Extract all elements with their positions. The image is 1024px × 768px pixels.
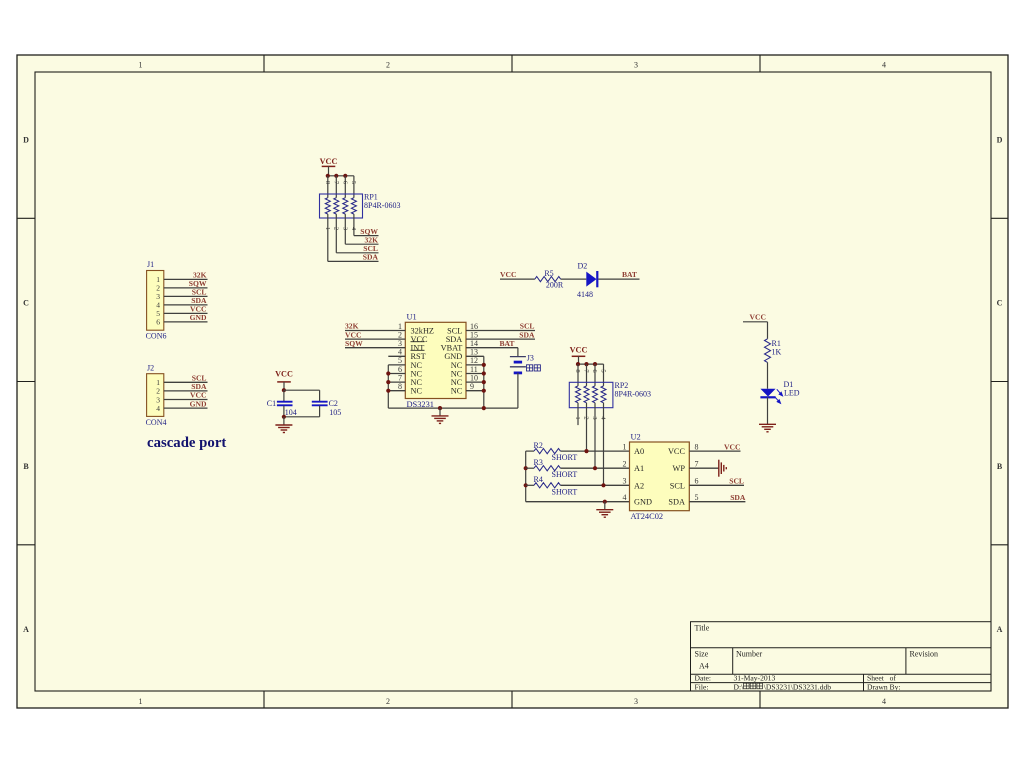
svg-text:8P4R-0603: 8P4R-0603: [615, 390, 651, 399]
svg-text:J3: J3: [527, 353, 534, 362]
junction dot rail R4: [524, 483, 528, 487]
svg-text:A: A: [23, 625, 29, 634]
battery J3: [517, 348, 519, 357]
ground C1: [283, 417, 285, 425]
resistor R5: [535, 277, 561, 282]
wire D1 to ground: [767, 397, 769, 424]
svg-text:VCC: VCC: [275, 369, 293, 378]
svg-text:3: 3: [634, 697, 638, 706]
RP2 resistors: [576, 386, 581, 403]
ground U1: [439, 408, 441, 416]
svg-text:VCC: VCC: [668, 447, 686, 456]
svg-text:Title: Title: [695, 624, 710, 633]
svg-text:Size: Size: [695, 650, 709, 659]
LED D1: [760, 389, 775, 397]
svg-text:AT24C02: AT24C02: [631, 512, 664, 521]
wire U2 WP to ground: [689, 467, 718, 469]
svg-text:SHORT: SHORT: [552, 487, 578, 496]
J1 pin 5 wire: [164, 312, 208, 314]
wire U1 SDA out: [466, 338, 535, 340]
svg-text:A4: A4: [699, 662, 709, 671]
wire NC vertical right: [483, 356, 485, 408]
svg-text:D: D: [23, 135, 29, 144]
U1 INT overline: [411, 341, 425, 343]
svg-text:1: 1: [139, 61, 143, 70]
wire R1 to D1: [767, 362, 769, 388]
RP1 resistors: [325, 198, 330, 214]
ground U2: [604, 502, 606, 510]
svg-text:6: 6: [695, 477, 699, 486]
wire C1 top to C2: [284, 389, 320, 391]
junction dot R3: [593, 466, 597, 470]
J3 value battery: [527, 365, 533, 371]
svg-text:2: 2: [623, 460, 627, 469]
svg-text:SHORT: SHORT: [552, 470, 578, 479]
svg-text:B: B: [997, 462, 1003, 471]
resistor R3: [526, 467, 534, 469]
svg-text:3: 3: [634, 61, 638, 70]
wire VCC rail RP2: [578, 363, 604, 365]
resistor R4: [526, 484, 534, 486]
junction dot R2: [584, 449, 588, 453]
wire U2 SDA out: [689, 501, 745, 503]
svg-text:C1: C1: [267, 399, 276, 408]
wire net 32K to U1: [345, 330, 405, 332]
svg-text:4: 4: [156, 404, 160, 413]
svg-text:5: 5: [695, 493, 699, 502]
svg-text:D: D: [997, 135, 1003, 144]
J1 pin 1 wire: [164, 278, 208, 280]
svg-text:8: 8: [324, 181, 331, 184]
zone dividers top: [263, 55, 265, 72]
svg-text:GND: GND: [634, 498, 652, 507]
junction dot rail-gnd: [438, 406, 442, 410]
svg-text:GND: GND: [190, 313, 207, 322]
svg-text:BAT: BAT: [622, 270, 637, 279]
svg-text:9: 9: [470, 382, 474, 391]
J2 pin 2 wire: [164, 390, 208, 392]
svg-text:C2: C2: [329, 399, 338, 408]
svg-text:3: 3: [623, 477, 627, 486]
svg-text:SDA: SDA: [730, 493, 746, 502]
svg-text:31-May-2013: 31-May-2013: [734, 673, 776, 682]
op-amp U1 body: [405, 322, 466, 398]
svg-text:2: 2: [386, 61, 390, 70]
svg-text:104: 104: [285, 408, 297, 417]
wire U2 SCL out: [689, 484, 744, 486]
wire D2 to BAT: [598, 278, 639, 280]
svg-text:C: C: [23, 299, 29, 308]
J2 pin 3 wire: [164, 399, 208, 401]
resistor R2: [526, 450, 534, 452]
connector J2: [147, 374, 164, 417]
U1 pin 4 stub: [388, 355, 405, 357]
svg-text:Number: Number: [736, 650, 763, 659]
svg-text:8: 8: [398, 382, 402, 391]
svg-text:A1: A1: [634, 464, 644, 473]
svg-text:R2: R2: [534, 441, 543, 450]
svg-text:J2: J2: [147, 364, 154, 373]
wire RP1 to net 32K: [344, 231, 346, 244]
svg-text:Drawn By:: Drawn By:: [867, 682, 901, 691]
svg-text:Revision: Revision: [910, 650, 938, 659]
wire VCC to R5: [500, 278, 535, 280]
svg-text:SDA: SDA: [363, 253, 379, 262]
junction dots RP2 top: [576, 362, 580, 366]
svg-text:GND: GND: [190, 399, 207, 408]
svg-text:cascade port: cascade port: [147, 435, 226, 451]
wire VCC rail RP1: [328, 175, 354, 177]
svg-text:2: 2: [332, 227, 339, 230]
wire U1 bottom ground rail: [388, 407, 518, 409]
svg-text:8P4R-0603: 8P4R-0603: [364, 201, 400, 210]
svg-text:C: C: [997, 299, 1003, 308]
RP2 pin1 stub: [577, 403, 579, 425]
svg-text:SQW: SQW: [345, 339, 363, 348]
zone dividers bottom: [263, 691, 265, 708]
title block: [691, 622, 992, 691]
svg-text:VCC: VCC: [500, 270, 516, 279]
wire net VCC to U1: [345, 338, 405, 340]
J2 pin 4 wire: [164, 407, 208, 409]
junction dot C1 bottom: [282, 415, 286, 419]
svg-text:SCL: SCL: [670, 481, 685, 490]
wire RP2 pin4 to A2: [603, 403, 605, 486]
inner border: [35, 72, 991, 691]
RP1 top pin wires: [327, 176, 329, 198]
svg-text:8: 8: [574, 369, 581, 372]
J1 pin 4 wire: [164, 304, 208, 306]
J1 pin 2 wire: [164, 287, 208, 289]
junction dot rail-right: [482, 406, 486, 410]
wire net SQW to U1: [345, 347, 405, 349]
svg-text:4: 4: [623, 493, 627, 502]
svg-text:U2: U2: [631, 432, 641, 441]
svg-text:1: 1: [324, 227, 331, 230]
junction dot gnd rail: [603, 500, 607, 504]
wire left rail R2R3R4: [525, 451, 527, 502]
svg-text:A0: A0: [634, 447, 644, 456]
svg-text:Date:: Date:: [695, 673, 711, 682]
svg-text:File:: File:: [695, 682, 709, 691]
junction dot rail R3: [524, 466, 528, 470]
wire U2 VCC out: [689, 450, 740, 452]
svg-text:U1: U1: [407, 313, 417, 322]
wire RP2 pin2 to A0: [586, 403, 588, 451]
junction dots left NC: [386, 371, 390, 375]
svg-text:1: 1: [139, 697, 143, 706]
svg-text:8: 8: [695, 442, 699, 451]
svg-text:CON4: CON4: [146, 418, 167, 427]
svg-text:1: 1: [623, 442, 627, 451]
svg-text:VCC: VCC: [570, 345, 588, 354]
svg-text:SCL: SCL: [729, 477, 744, 486]
svg-text:4148: 4148: [577, 290, 593, 299]
IC U2 body: [630, 442, 690, 511]
wire U1 SCL out: [466, 330, 535, 332]
svg-text:R3: R3: [534, 458, 543, 467]
U1 pins 12-9 NC wires: [466, 364, 484, 366]
zone dividers right: [991, 217, 1008, 219]
wire RP1 to net SCL: [335, 231, 337, 253]
junction dots right NC: [482, 363, 486, 367]
resistor pack RP2 box: [569, 382, 613, 407]
U1 pin13 GND wire: [466, 355, 484, 357]
J1 pin 3 wire: [164, 295, 208, 297]
wire NC vertical left: [387, 365, 389, 408]
svg-text:SDA: SDA: [668, 498, 685, 507]
svg-text:105: 105: [329, 408, 341, 417]
J1 pin 6 wire: [164, 321, 208, 323]
wire R4 to U2: [560, 484, 629, 486]
D1 arrows: [775, 389, 783, 403]
capacitor C2: [319, 390, 321, 401]
svg-text:4: 4: [882, 61, 886, 70]
junction dots RP1 top: [326, 174, 330, 178]
svg-text:3: 3: [341, 227, 348, 230]
wire R5 to D2: [561, 278, 587, 280]
wire U1 VBAT to battery: [466, 347, 518, 349]
svg-text:D2: D2: [578, 262, 588, 271]
RP2 top pin wires: [577, 364, 579, 386]
J2 pin 1 wire: [164, 381, 208, 383]
svg-text:WP: WP: [673, 464, 686, 473]
ground D1: [759, 423, 776, 425]
svg-text:5: 5: [350, 181, 357, 184]
svg-text:VCC: VCC: [750, 312, 766, 321]
wire VCC to R1: [743, 321, 768, 323]
wire C2 bottom to C1: [284, 416, 320, 418]
svg-text:Sheet of: Sheet of: [867, 673, 896, 682]
resistor pack RP1 box: [320, 194, 363, 218]
diode D2: [586, 272, 596, 287]
junction dot VCC-C1: [282, 388, 286, 392]
svg-text:B: B: [23, 462, 29, 471]
svg-text:VCC: VCC: [724, 442, 740, 451]
svg-text:BAT: BAT: [499, 339, 514, 348]
capacitor C1: [283, 390, 285, 401]
svg-text:1K: 1K: [772, 348, 782, 357]
svg-text:VCC: VCC: [320, 157, 338, 166]
svg-text:NC: NC: [411, 387, 423, 396]
svg-text:NC: NC: [451, 387, 463, 396]
svg-text:2: 2: [386, 697, 390, 706]
svg-text:200R: 200R: [546, 281, 564, 290]
svg-text:\DS3231\DS3231.ddb: \DS3231\DS3231.ddb: [764, 682, 832, 691]
junction dot R4: [601, 483, 605, 487]
svg-text:7: 7: [695, 460, 699, 469]
connector J1: [147, 271, 164, 331]
svg-text:SDA: SDA: [519, 330, 535, 339]
svg-text:D:\: D:\: [734, 682, 745, 691]
wire R2 to U2: [560, 450, 629, 452]
wire RP1 to net SDA: [327, 231, 329, 261]
svg-text:6: 6: [156, 318, 160, 327]
wire RP2 pin3 to A1: [594, 403, 596, 468]
svg-text:R5: R5: [544, 269, 553, 278]
U1 RST overline: [411, 349, 425, 351]
svg-text:J1: J1: [147, 260, 154, 269]
svg-text:4: 4: [882, 697, 886, 706]
wire GND rail U2: [526, 501, 630, 503]
svg-text:SHORT: SHORT: [552, 453, 578, 462]
wire R3 to U2: [560, 467, 629, 469]
resistor R1: [765, 339, 771, 363]
zone dividers left: [17, 217, 35, 219]
svg-text:A: A: [997, 625, 1003, 634]
wire RP1 to net SQW: [353, 231, 355, 236]
ground WP (rotated): [718, 460, 720, 477]
RP1 bottom pin wires: [327, 214, 329, 231]
svg-text:5: 5: [600, 369, 607, 372]
svg-text:CON6: CON6: [146, 332, 167, 341]
U1 pins 5-8 NC wires: [388, 364, 405, 366]
svg-text:LED: LED: [784, 389, 800, 398]
svg-text:A2: A2: [634, 481, 644, 490]
svg-text:R4: R4: [534, 475, 543, 484]
